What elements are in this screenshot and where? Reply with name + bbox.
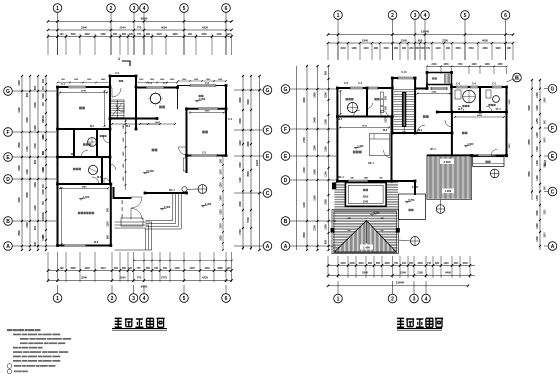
svg-text:1200: 1200 [536, 223, 539, 229]
svg-text:3240: 3240 [81, 25, 87, 29]
svg-text:1260: 1260 [100, 33, 106, 36]
door arcs left plan [112, 88, 121, 97]
svg-text:4: 4 [425, 296, 428, 302]
svg-text:5: 5 [183, 6, 186, 12]
svg-text:1400: 1400 [536, 175, 539, 181]
svg-text:-0.300: -0.300 [163, 206, 171, 209]
svg-text:1300: 1300 [34, 143, 37, 149]
door arcs right plan [354, 110, 361, 117]
svg-text:16140: 16140 [544, 159, 547, 166]
svg-text:14640: 14640 [256, 159, 259, 166]
svg-text:540: 540 [421, 47, 426, 50]
svg-text:720: 720 [426, 47, 431, 50]
svg-text:C-6: C-6 [344, 82, 349, 85]
svg-text:1.400: 1.400 [467, 143, 474, 146]
svg-text:1510: 1510 [100, 267, 106, 270]
svg-text:300: 300 [42, 78, 45, 83]
svg-text:120: 120 [60, 33, 65, 36]
svg-text:4230: 4230 [202, 276, 208, 280]
svg-text:1800: 1800 [314, 92, 317, 98]
svg-text:120: 120 [227, 33, 232, 36]
svg-text:A: A [284, 244, 288, 250]
terrace railing top-right [178, 85, 227, 87]
svg-text:2600: 2600 [247, 141, 250, 147]
svg-text:1200: 1200 [325, 224, 328, 230]
svg-text:1250: 1250 [497, 64, 503, 66]
svg-text:B: B [6, 219, 10, 225]
svg-text:1100: 1100 [472, 64, 478, 66]
axis bubbles top row (1-6) left plan [53, 4, 62, 13]
svg-text:M-3: M-3 [383, 129, 388, 132]
svg-text:F: F [551, 126, 554, 132]
svg-text:2: 2 [110, 6, 113, 12]
svg-text:740: 740 [427, 262, 432, 265]
svg-text:3240: 3240 [431, 91, 437, 94]
svg-text:1500: 1500 [314, 145, 317, 151]
svg-text:15840: 15840 [421, 29, 430, 33]
svg-text:2500: 2500 [18, 230, 21, 236]
svg-text:1300: 1300 [221, 169, 223, 175]
bottom wall [58, 245, 111, 247]
detail circle right of hip roof [411, 237, 420, 246]
svg-text:2100: 2100 [314, 225, 317, 231]
svg-text:3300: 3300 [26, 117, 29, 123]
bottom dimension block right plan [327, 256, 329, 278]
svg-text:2100: 2100 [386, 117, 388, 123]
svg-text:760: 760 [394, 262, 399, 265]
svg-text:1680: 1680 [482, 47, 488, 50]
legend notes block [7, 329, 13, 331]
svg-text:G: G [551, 87, 555, 93]
level marks left plan [195, 101, 198, 103]
svg-text:1500: 1500 [239, 162, 242, 168]
svg-text:1300: 1300 [84, 267, 90, 270]
svg-text:950: 950 [114, 267, 119, 270]
svg-text:1150: 1150 [417, 271, 423, 275]
svg-text:1400: 1400 [34, 205, 37, 211]
svg-text:600: 600 [416, 47, 421, 50]
axis bubbles bottom row (1-6) left plan [53, 294, 62, 303]
axis bubbles bottom row right plan (1-4) [334, 294, 343, 303]
axis bubbles left column (G F E D B A) [4, 87, 13, 96]
svg-text:1500: 1500 [325, 199, 328, 205]
svg-text:M-2: M-2 [126, 125, 131, 128]
upper roof block with dormer [334, 182, 398, 184]
svg-text:800: 800 [34, 159, 37, 164]
svg-text:900: 900 [394, 47, 399, 50]
svg-text:960: 960 [402, 47, 407, 50]
svg-text:1400: 1400 [484, 63, 490, 66]
svg-text:860: 860 [122, 267, 127, 270]
interior walls left plan [109, 87, 111, 129]
svg-text:1540: 1540 [508, 99, 511, 105]
svg-text:2700: 2700 [239, 229, 242, 235]
svg-text:D: D [284, 178, 288, 184]
svg-text:3940: 3940 [82, 185, 88, 188]
svg-text:1400: 1400 [536, 132, 539, 138]
svg-text:2400: 2400 [239, 201, 242, 207]
svg-text:2: 2 [111, 296, 114, 302]
svg-text:600: 600 [325, 239, 328, 244]
svg-text:950: 950 [113, 33, 118, 36]
svg-text:120: 120 [60, 267, 65, 270]
svg-text:2240: 2240 [120, 25, 126, 29]
title: second floor plan [397, 318, 404, 327]
left plan outer walls [58, 76, 227, 246]
svg-text:5700: 5700 [247, 217, 250, 223]
svg-text:1480: 1480 [351, 47, 357, 50]
svg-text:C-8: C-8 [456, 83, 461, 86]
svg-text:1300: 1300 [536, 195, 539, 201]
svg-text:1300: 1300 [84, 33, 90, 36]
svg-text:1100: 1100 [443, 262, 449, 265]
svg-text:C-1: C-1 [61, 83, 66, 86]
svg-text:4200: 4200 [18, 197, 21, 203]
svg-text:BC-1: BC-1 [169, 189, 175, 192]
svg-text:1.400: 1.400 [357, 145, 364, 148]
svg-text:1300: 1300 [536, 160, 539, 166]
svg-text:1540: 1540 [544, 97, 547, 103]
room labels right plan [346, 98, 348, 100]
svg-text:1560: 1560 [468, 47, 474, 50]
right vertical dimension lines of left plan [242, 76, 244, 250]
axis bubbles right column of left plan (G F E C A) [263, 86, 272, 95]
svg-text:1400: 1400 [536, 105, 539, 111]
svg-text:A: A [6, 244, 10, 250]
svg-text:1000: 1000 [462, 262, 468, 265]
svg-text:C-2: C-2 [148, 82, 153, 85]
svg-text:1: 1 [337, 13, 340, 19]
svg-text:1: 1 [337, 296, 340, 302]
svg-text:1300: 1300 [536, 92, 539, 98]
svg-text:5.750: 5.750 [412, 186, 419, 189]
svg-text:3: 3 [132, 296, 135, 302]
column nodes right plan [336, 87, 339, 90]
svg-text:1080: 1080 [217, 267, 223, 270]
svg-text:2700: 2700 [303, 137, 306, 143]
svg-text:900: 900 [507, 47, 512, 50]
stairwell enclosure [391, 78, 393, 133]
svg-text:G: G [6, 89, 10, 95]
main bottom wall [337, 180, 391, 182]
svg-text:1300: 1300 [536, 146, 539, 152]
svg-text:C-9: C-9 [115, 72, 120, 75]
svg-text:1050: 1050 [221, 235, 223, 241]
svg-text:C-5: C-5 [492, 83, 497, 86]
svg-text:820: 820 [435, 262, 440, 265]
svg-text:3240: 3240 [81, 276, 87, 280]
svg-text:±0.000: ±0.000 [146, 170, 154, 173]
svg-text:4400: 4400 [445, 271, 451, 275]
svg-text:A: A [266, 244, 270, 250]
wing top wall [452, 86, 507, 88]
svg-text:6: 6 [225, 296, 228, 302]
svg-text:G: G [266, 88, 270, 94]
svg-text:M-4: M-4 [71, 153, 76, 156]
svg-text:2200: 2200 [18, 165, 21, 171]
svg-text:1500: 1500 [545, 232, 547, 238]
svg-text:1440: 1440 [363, 47, 369, 50]
svg-text:M-1: M-1 [90, 125, 95, 128]
svg-text:2340: 2340 [363, 200, 369, 203]
right dimension column right plan [539, 80, 541, 250]
svg-text:900: 900 [325, 70, 328, 75]
svg-text:2100: 2100 [325, 92, 328, 98]
svg-text:1350: 1350 [221, 209, 223, 215]
svg-text:850: 850 [454, 262, 459, 265]
svg-text:1560: 1560 [70, 33, 76, 36]
interior dimension annotations left plan [60, 92, 107, 94]
svg-text:2400: 2400 [303, 167, 306, 173]
svg-text:1740: 1740 [457, 63, 463, 66]
svg-text:420: 420 [128, 267, 133, 270]
svg-text:1900: 1900 [239, 140, 242, 146]
svg-text:4980: 4980 [477, 114, 483, 117]
svg-text:1200: 1200 [107, 221, 109, 227]
svg-text:960: 960 [446, 47, 451, 50]
svg-text:A: A [551, 244, 555, 250]
main left wall [336, 88, 338, 181]
fixture symbols left plan [88, 138, 97, 147]
bedroom1 walls [187, 108, 227, 110]
sub dim chain below bedroom right [222, 156, 224, 250]
svg-text:C-4: C-4 [358, 82, 363, 85]
svg-text:2800: 2800 [528, 139, 531, 145]
svg-text:2770: 2770 [161, 276, 167, 280]
svg-text:1560: 1560 [70, 267, 76, 270]
svg-text:4740: 4740 [81, 90, 87, 93]
svg-text:M-1: M-1 [338, 118, 343, 121]
svg-text:1620: 1620 [495, 47, 501, 50]
svg-text:840: 840 [410, 47, 415, 50]
svg-text:B: B [284, 219, 288, 225]
svg-text:420: 420 [129, 33, 134, 36]
svg-text:770: 770 [137, 33, 142, 36]
svg-text:2400: 2400 [34, 102, 37, 108]
svg-text:1900: 1900 [314, 195, 317, 201]
svg-text:1440: 1440 [435, 47, 441, 50]
svg-text:1020: 1020 [156, 33, 162, 36]
svg-text:900: 900 [34, 225, 37, 230]
roof terrace vertical hatch (right) [427, 155, 472, 199]
top dimension lines left plan [48, 20, 232, 22]
svg-text:1100: 1100 [239, 177, 242, 183]
svg-text:3750: 3750 [442, 38, 448, 42]
svg-text:2400: 2400 [544, 137, 547, 143]
svg-text:4050: 4050 [482, 38, 488, 42]
left vertical dimension lines [21, 76, 23, 250]
terrace steps bottom-center [146, 193, 182, 229]
svg-text:BC-1: BC-1 [338, 176, 344, 179]
svg-text:6: 6 [504, 13, 507, 19]
svg-text:G: G [284, 87, 288, 93]
svg-text:1.300: 1.300 [445, 189, 452, 193]
svg-text:1400: 1400 [220, 195, 223, 201]
svg-text:2500: 2500 [18, 142, 21, 148]
svg-text:770: 770 [137, 267, 142, 270]
svg-text:2: 2 [391, 13, 394, 19]
svg-text:2000: 2000 [26, 192, 29, 198]
column nodes left plan [56, 86, 59, 89]
svg-text:770: 770 [137, 25, 142, 29]
detail circle below terrace [436, 205, 445, 214]
svg-text:C: C [551, 189, 555, 195]
svg-text:5340: 5340 [362, 38, 368, 42]
svg-text:900: 900 [163, 267, 168, 270]
svg-text:4000: 4000 [303, 97, 306, 103]
svg-text:770: 770 [137, 276, 142, 280]
svg-text:1: 1 [56, 6, 59, 12]
title: first floor plan [115, 318, 122, 327]
right plan outer walls [337, 73, 506, 195]
svg-text:4100: 4100 [303, 202, 306, 208]
svg-text:-0.450: -0.450 [204, 203, 212, 206]
svg-text:2900: 2900 [239, 97, 242, 103]
hip roof block [332, 210, 399, 254]
svg-text:1100: 1100 [325, 171, 328, 177]
svg-text:M-5: M-5 [458, 108, 463, 111]
svg-text:1250: 1250 [174, 267, 180, 270]
svg-text:3: 3 [414, 13, 417, 19]
svg-text:C-5: C-5 [202, 152, 207, 155]
svg-text:2300: 2300 [42, 212, 45, 218]
svg-text:4.500: 4.500 [444, 160, 451, 164]
svg-text:1000: 1000 [42, 189, 45, 195]
svg-text:-1.500: -1.500 [82, 196, 90, 199]
svg-text:3900: 3900 [247, 99, 250, 105]
svg-text:6: 6 [225, 6, 228, 12]
svg-text:1260: 1260 [204, 267, 210, 270]
svg-text:2340: 2340 [400, 271, 406, 275]
svg-text:810: 810 [402, 262, 407, 265]
svg-text:2600: 2600 [239, 118, 242, 124]
top balcony box [427, 73, 452, 85]
right plan: second floor [281, 11, 557, 303]
svg-text:C-10: C-10 [401, 71, 407, 74]
wing right wall [506, 87, 508, 156]
svg-text:1350: 1350 [325, 119, 328, 125]
svg-text:9900: 9900 [141, 17, 148, 21]
detail circles [182, 187, 187, 192]
svg-text:900: 900 [26, 92, 29, 97]
svg-text:1400: 1400 [26, 169, 29, 175]
svg-text:2240: 2240 [120, 276, 126, 280]
svg-text:1500: 1500 [536, 210, 539, 216]
balcony below wing [473, 157, 504, 167]
svg-text:1500: 1500 [383, 47, 389, 50]
svg-text:4: 4 [424, 13, 427, 19]
svg-text:1050: 1050 [443, 64, 449, 66]
svg-text:5340: 5340 [362, 271, 368, 275]
svg-text:600: 600 [409, 262, 414, 265]
svg-text:C: C [266, 191, 270, 197]
svg-text:4230: 4230 [202, 25, 208, 29]
svg-text:4200: 4200 [363, 195, 369, 199]
svg-text:1040: 1040 [340, 47, 346, 50]
svg-text:1560: 1560 [201, 33, 207, 36]
svg-text:BY-1: BY-1 [430, 148, 436, 151]
svg-text:M-2: M-2 [418, 129, 423, 132]
left outer wall [57, 87, 59, 246]
svg-text:600: 600 [34, 241, 37, 246]
svg-text:2400: 2400 [508, 143, 511, 149]
svg-text:1.400: 1.400 [363, 245, 370, 249]
svg-text:3: 3 [413, 296, 416, 302]
svg-text:1800: 1800 [26, 222, 29, 228]
svg-text:C-3: C-3 [228, 118, 233, 121]
svg-text:3500: 3500 [247, 171, 250, 177]
svg-text:860: 860 [122, 33, 127, 36]
small terrace room right of roof [399, 194, 426, 220]
svg-text:M-6: M-6 [94, 241, 99, 244]
svg-text:C-6: C-6 [472, 83, 477, 86]
left plan: first floor [4, 4, 272, 303]
svg-text:-0.300: -0.300 [198, 98, 206, 101]
svg-text:600: 600 [146, 33, 151, 36]
svg-text:2400: 2400 [314, 117, 317, 123]
svg-text:1440: 1440 [216, 33, 222, 36]
svg-text:4100: 4100 [18, 107, 21, 113]
svg-text:15840: 15840 [396, 281, 405, 285]
axis bubbles left column right plan (G F E D B A) [281, 85, 290, 94]
room labels left plan [79, 107, 82, 110]
svg-text:1040: 1040 [340, 262, 346, 265]
stair left plan [111, 100, 124, 118]
svg-text:1600: 1600 [314, 169, 317, 175]
svg-text:600: 600 [34, 85, 37, 90]
svg-text:1560: 1560 [455, 47, 461, 50]
svg-text:850: 850 [376, 262, 381, 265]
svg-text:1440: 1440 [189, 267, 195, 270]
dining table symbol [150, 93, 160, 103]
svg-text:1060: 1060 [384, 262, 390, 265]
svg-text:1300: 1300 [325, 146, 328, 152]
svg-text:3500: 3500 [528, 171, 531, 177]
svg-text:1020: 1020 [358, 262, 364, 265]
svg-text:M-3: M-3 [97, 176, 102, 179]
bed symbol master bedroom [370, 134, 390, 156]
windows left plan [68, 86, 86, 88]
svg-text:1250: 1250 [536, 118, 539, 124]
fixtures right plan [348, 103, 358, 113]
svg-text:3900: 3900 [528, 105, 531, 111]
svg-text:950: 950 [418, 38, 423, 42]
bottom dimension lines left plan [47, 252, 49, 282]
svg-text:F: F [6, 130, 9, 136]
svg-text:1700: 1700 [26, 146, 29, 152]
stair right plan [394, 88, 414, 90]
svg-text:2340: 2340 [401, 38, 407, 42]
svg-text:2: 2 [391, 296, 394, 302]
svg-text:600: 600 [146, 267, 151, 270]
svg-text:F: F [284, 127, 287, 133]
window dim strings above top wall [58, 82, 111, 84]
svg-text:3300: 3300 [205, 111, 211, 113]
svg-text:3: 3 [133, 6, 136, 12]
svg-text:1500: 1500 [18, 80, 21, 86]
svg-text:980: 980 [374, 47, 379, 50]
svg-text:2140: 2140 [431, 63, 437, 66]
svg-text:4: 4 [143, 296, 146, 302]
svg-text:5100: 5100 [362, 126, 368, 128]
svg-text:TC-1: TC-1 [495, 108, 501, 111]
svg-text:1800: 1800 [42, 93, 45, 99]
svg-text:1200: 1200 [34, 125, 37, 131]
svg-text:1: 1 [56, 296, 59, 302]
svg-text:1250: 1250 [221, 182, 223, 188]
windows right plan [336, 97, 338, 99]
svg-text:5: 5 [183, 296, 186, 302]
